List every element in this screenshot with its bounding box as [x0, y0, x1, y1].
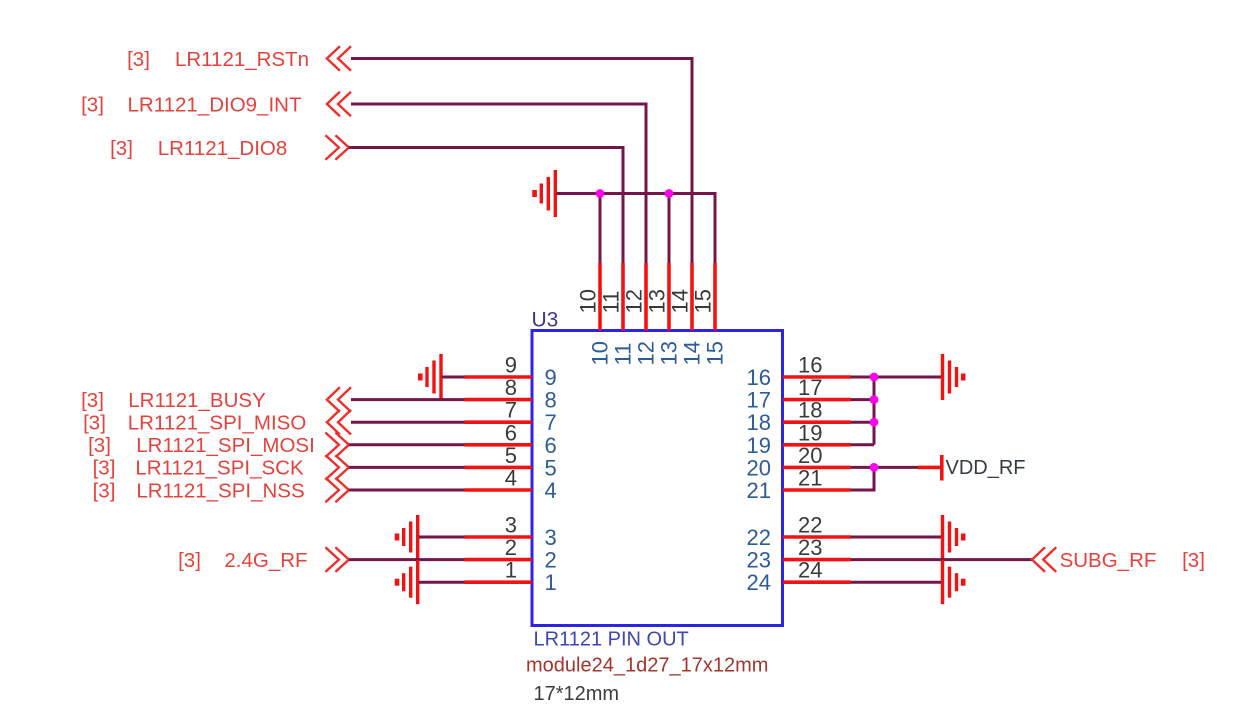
svg-text:17*12mm: 17*12mm [534, 683, 620, 705]
pin 15 [691, 263, 728, 366]
svg-text:8: 8 [505, 375, 517, 400]
svg-text:[3]: [3] [81, 93, 104, 116]
svg-text:13: 13 [645, 289, 670, 313]
wire 2.4G_RF to pin 2 [349, 558, 465, 561]
wire LR1121_BUSY to pin 8 [351, 398, 465, 401]
pin 21 [747, 466, 851, 504]
wire LR1121_SPI_NSS to pin 4 [349, 489, 465, 492]
pin 9 [465, 353, 557, 391]
svg-text:18: 18 [798, 398, 822, 423]
svg-text:23: 23 [747, 548, 771, 573]
svg-text:LR1121_BUSY: LR1121_BUSY [128, 389, 266, 412]
port chevron LR1121_SPI_MISO [327, 410, 351, 435]
svg-text:LR1121_DIO9_INT: LR1121_DIO9_INT [128, 93, 302, 116]
net label LR1121_RSTn [3] [127, 48, 309, 71]
svg-text:14: 14 [680, 341, 705, 365]
pin 5 [465, 443, 557, 481]
pin 1 [465, 558, 557, 596]
pin 4 [465, 466, 557, 504]
port chevron LR1121_DIO8 [325, 135, 349, 160]
wire pin 16 to right ground [851, 376, 942, 379]
svg-text:14: 14 [668, 289, 693, 313]
port chevron LR1121_SPI_MOSI [325, 433, 349, 458]
net label SUBG_RF [3] [1060, 549, 1205, 572]
ground (pin 24) [943, 560, 964, 604]
svg-text:24: 24 [747, 570, 771, 595]
pin 12 [622, 263, 659, 366]
pin 8 [465, 375, 557, 413]
wire LR1121_DIO8 to pin 11 [349, 148, 623, 264]
svg-text:[3]: [3] [83, 412, 106, 435]
svg-text:1: 1 [505, 558, 517, 583]
svg-text:[3]: [3] [1182, 549, 1205, 572]
svg-text:2: 2 [545, 548, 557, 573]
ground (pins 16-19) [943, 354, 964, 400]
svg-text:[3]: [3] [93, 479, 116, 502]
pin 16 [747, 353, 851, 391]
port chevron LR1121_RSTn [327, 46, 351, 71]
pin 20 [747, 443, 851, 481]
wire ground to pin 9 [442, 376, 465, 379]
svg-text:20: 20 [747, 455, 771, 480]
ground (pin 22) [943, 515, 964, 559]
svg-text:5: 5 [545, 455, 557, 480]
net label LR1121_SPI_NSS [3] [93, 479, 305, 502]
pin 11 [599, 263, 636, 366]
svg-text:22: 22 [747, 525, 771, 550]
junction pin 18 [870, 418, 879, 427]
pin 23 [747, 535, 851, 573]
junction at pin 10 column [596, 189, 605, 198]
svg-text:19: 19 [798, 420, 822, 445]
wire ground to pin 1 [419, 581, 465, 584]
junction pin 20 [870, 463, 879, 472]
wire ground bus vertical (pins 16-19) [873, 377, 876, 445]
svg-text:17: 17 [798, 375, 822, 400]
svg-text:LR1121_RSTn: LR1121_RSTn [175, 48, 309, 71]
pin 10 [576, 263, 613, 366]
pin 18 [747, 398, 851, 436]
net label LR1121_BUSY [3] [81, 389, 266, 412]
net label 2.4G_RF [3] [178, 549, 307, 572]
svg-text:9: 9 [505, 353, 517, 378]
svg-text:23: 23 [798, 535, 822, 560]
svg-text:[3]: [3] [88, 434, 111, 457]
svg-text:VDD_RF: VDD_RF [946, 457, 1026, 479]
IC U3 body [532, 331, 783, 626]
wire LR1121_SPI_MOSI to pin 6 [349, 443, 465, 446]
power symbol VDD_RF [918, 455, 1026, 481]
svg-text:SUBG_RF: SUBG_RF [1060, 549, 1157, 572]
svg-text:15: 15 [703, 341, 728, 365]
svg-text:U3: U3 [532, 309, 559, 332]
pin 13 [645, 263, 682, 366]
port chevron SUBG_RF [1032, 547, 1056, 572]
wire ground drop to pin 13 [668, 194, 671, 264]
wire pin 17 to bus [851, 398, 875, 401]
svg-text:LR1121_SPI_SCK: LR1121_SPI_SCK [135, 457, 304, 480]
svg-text:LR1121_DIO8: LR1121_DIO8 [158, 137, 288, 160]
junction at pin 13 column [665, 189, 674, 198]
net label LR1121_SPI_SCK [3] [93, 457, 304, 480]
svg-text:11: 11 [599, 291, 624, 314]
ground (pin 3) [397, 515, 418, 559]
net label LR1121_DIO9_INT [3] [81, 93, 302, 116]
ground (pin 9) [420, 354, 441, 400]
svg-text:[3]: [3] [178, 549, 201, 572]
svg-text:13: 13 [657, 341, 682, 365]
wire pin 18 to bus [851, 421, 875, 424]
port chevron LR1121_BUSY [327, 387, 351, 412]
svg-text:21: 21 [747, 478, 771, 503]
junction pin 17 [870, 395, 879, 404]
wire pin 21 to pin 20 junction [851, 467, 875, 490]
pin 3 [465, 513, 557, 551]
svg-text:module24_1d27_17x12mm: module24_1d27_17x12mm [526, 655, 768, 677]
svg-text:6: 6 [505, 420, 517, 445]
port chevron LR1121_SPI_SCK [325, 455, 349, 480]
svg-text:15: 15 [691, 289, 716, 313]
svg-text:5: 5 [505, 443, 517, 468]
svg-text:6: 6 [545, 433, 557, 458]
svg-text:24: 24 [798, 558, 822, 583]
wire top ground bus [557, 194, 716, 264]
svg-text:1: 1 [545, 570, 557, 595]
svg-text:4: 4 [505, 466, 517, 491]
wire pin 22 to ground [851, 536, 942, 539]
svg-text:LR1121_SPI_MOSI: LR1121_SPI_MOSI [136, 434, 315, 457]
junction pin 16 [870, 373, 879, 382]
svg-text:LR1121_SPI_MISO: LR1121_SPI_MISO [128, 412, 307, 435]
pin 17 [747, 375, 851, 413]
svg-text:17: 17 [747, 388, 771, 413]
svg-text:4: 4 [545, 478, 557, 503]
svg-text:LR1121 PIN OUT: LR1121 PIN OUT [534, 629, 689, 651]
svg-text:22: 22 [798, 513, 822, 538]
port chevron LR1121_SPI_NSS [325, 478, 349, 503]
net label LR1121_SPI_MOSI [3] [88, 434, 315, 457]
svg-text:2: 2 [505, 535, 517, 560]
svg-text:[3]: [3] [110, 137, 133, 160]
svg-text:[3]: [3] [93, 457, 116, 480]
wire LR1121_SPI_MISO to pin 7 [351, 421, 465, 424]
net label LR1121_SPI_MISO [3] [83, 412, 306, 435]
pin 19 [747, 420, 851, 458]
svg-text:3: 3 [545, 525, 557, 550]
pin 6 [465, 420, 557, 458]
svg-text:9: 9 [545, 365, 557, 390]
net label LR1121_DIO8 [3] [110, 137, 287, 160]
pin 2 [465, 535, 557, 573]
svg-text:21: 21 [798, 466, 822, 491]
svg-text:7: 7 [545, 410, 557, 435]
pin 22 [747, 513, 851, 551]
svg-text:[3]: [3] [81, 389, 104, 412]
wire ground to pin 3 [419, 536, 465, 539]
svg-text:12: 12 [634, 341, 659, 365]
svg-text:20: 20 [798, 443, 822, 468]
wire ground drop to pin 10 [599, 194, 602, 264]
ground (top, pins 10/13/15) [535, 170, 556, 217]
svg-text:19: 19 [747, 433, 771, 458]
wire pin 24 to ground [851, 581, 942, 584]
svg-text:16: 16 [747, 365, 771, 390]
wire LR1121_SPI_SCK to pin 5 [349, 466, 465, 469]
svg-text:11: 11 [611, 343, 636, 366]
port chevron LR1121_DIO9_INT [327, 92, 351, 117]
svg-text:3: 3 [505, 513, 517, 538]
svg-text:2.4G_RF: 2.4G_RF [224, 549, 307, 572]
pin 24 [747, 558, 851, 596]
svg-text:10: 10 [576, 289, 601, 313]
wire pin 23 to SUBG_RF [851, 558, 1033, 561]
wire pin 20 to VDD_RF [851, 466, 919, 469]
svg-text:16: 16 [798, 353, 822, 378]
svg-text:7: 7 [505, 398, 517, 423]
pin 14 [668, 263, 705, 366]
wire pin 19 to bus [851, 443, 875, 446]
port chevron 2.4G_RF [325, 547, 349, 572]
wire LR1121_DIO9_INT to pin 12 [351, 104, 646, 263]
wire LR1121_RSTn to pin 14 [351, 59, 692, 264]
svg-text:[3]: [3] [127, 48, 150, 71]
svg-text:12: 12 [622, 289, 647, 313]
svg-text:18: 18 [747, 410, 771, 435]
svg-text:10: 10 [588, 341, 613, 365]
ground (pin 1) [397, 560, 418, 604]
svg-text:LR1121_SPI_NSS: LR1121_SPI_NSS [136, 479, 304, 502]
svg-text:8: 8 [545, 388, 557, 413]
pin 7 [465, 398, 557, 436]
